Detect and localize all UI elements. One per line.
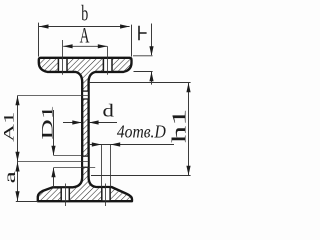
svg-text:d: d (103, 102, 115, 121)
web hole top (D through web) (82, 91, 90, 99)
hole right top flange (103, 58, 112, 72)
d dimension lines (63, 122, 82, 124)
A dimension line (63, 45, 107, 47)
hole left top flange (58, 58, 67, 72)
svg-text:a: a (1, 171, 18, 183)
svg-text:A: A (80, 23, 90, 48)
hole left bottom flange (61, 187, 69, 200)
T label (drawn) (139, 26, 147, 40)
svg-text:A1: A1 (1, 112, 17, 142)
T up arrow (to flange underside) (149, 72, 153, 82)
D left-pointing arrow (111, 142, 121, 146)
h1 dimension line (188, 83, 190, 175)
D1 up arrow (below hole) (51, 168, 55, 178)
hole extension verticals (bottom right hole up to D dim) (101, 145, 103, 188)
T dimension verticals (151, 24, 153, 56)
web bottom hole axis / A1-a junction (18, 161, 89, 163)
bottom hole axes (65, 184, 67, 207)
T extension lines (133, 55, 153, 57)
d right-pointing arrow (left side) (72, 120, 82, 124)
T down arrow (to flange top) (149, 46, 153, 56)
A extension / hole axes top (62, 40, 64, 75)
D1 dimension vertical (53, 110, 55, 155)
a dimension line (17, 162, 19, 202)
a up arrow (15, 162, 19, 172)
A left / right (63, 44, 73, 48)
D1 extension lines (54, 155, 82, 157)
A1 down arrow (15, 152, 19, 162)
b left / right (39, 24, 49, 28)
svg-text:4отв.D: 4отв.D (117, 121, 166, 141)
b dimension line (39, 26, 130, 28)
4otv.D dimension line (89, 144, 174, 146)
D1 down arrow (above hole) (51, 146, 55, 156)
A1 dimension line (17, 96, 19, 162)
svg-text:D1: D1 (39, 105, 56, 139)
h1 up arrow (186, 83, 190, 93)
h1 down arrow (186, 166, 190, 176)
h1 bottom extension (91, 175, 191, 177)
hole right bottom flange (102, 187, 110, 200)
d left-pointing arrow (right side) (89, 120, 99, 124)
web hole bottom (D1 through web) (82, 156, 90, 167)
h1 top extension (90, 82, 191, 84)
dimension arrowheads (15, 24, 190, 201)
svg-text:h1: h1 (169, 109, 191, 143)
I-beam section outline (hatched) (38, 58, 132, 201)
A1 top extension / web top hole axis (18, 95, 89, 97)
D right-pointing arrow (92, 142, 102, 146)
b extension lines (38, 23, 40, 57)
a down arrow (15, 191, 19, 201)
A1 up arrow (15, 96, 19, 106)
a bottom extension (16, 201, 38, 203)
